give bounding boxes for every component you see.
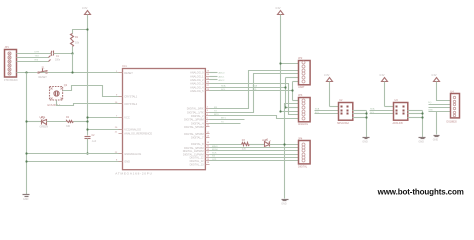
LED LED2 status <box>262 139 271 147</box>
resistor R2 330 <box>66 116 74 128</box>
resistor R1 10k reset pullup <box>71 34 80 47</box>
node junction SDA <box>284 86 286 88</box>
pin 1 RESET <box>116 71 133 75</box>
node junction SDA/JP3 <box>284 106 286 108</box>
wire ANALOG_1 stub <box>210 75 226 78</box>
svg-text:SDA: SDA <box>253 84 258 87</box>
wire U4 GND down <box>436 112 438 135</box>
pin 27 ANALOG_4 <box>190 85 210 89</box>
svg-text:JP2: JP2 <box>298 57 303 60</box>
ground symbol GND U4 <box>433 136 440 142</box>
svg-text:ANALOG_3: ANALOG_3 <box>190 82 204 86</box>
svg-text:Q2: Q2 <box>64 84 68 87</box>
svg-text:ANALOG_1: ANALOG_1 <box>190 74 204 78</box>
svg-text:DIGITAL_2: DIGITAL_2 <box>191 114 204 118</box>
wire LED1 to R2 <box>47 121 67 123</box>
svg-text:GND/ANALOG: GND/ANALOG <box>124 152 141 156</box>
wire 3.3V vertical rail <box>87 15 89 136</box>
svg-text:3.3V: 3.3V <box>275 6 281 10</box>
svg-text:DIGITAL_3/PWM: DIGITAL_3/PWM <box>184 118 203 122</box>
node junction VCC pin20 <box>86 128 88 130</box>
pin 28 ANALOG_5 <box>190 89 210 93</box>
svg-text:DS18B20: DS18B20 <box>447 120 458 123</box>
node junction GND rail 1 <box>25 152 27 154</box>
wire DIGITAL_12 to JP4 <box>210 157 299 159</box>
node junction 3.3V/analog <box>279 110 281 112</box>
svg-text:UART: UART <box>298 86 305 89</box>
supply +3.3V P1 <box>82 6 91 14</box>
wire reset net vertical <box>72 54 74 73</box>
svg-text:3.3V: 3.3V <box>379 73 385 77</box>
svg-text:LED1: LED1 <box>40 116 47 119</box>
svg-text:DIGITAL_1/TX: DIGITAL_1/TX <box>187 110 204 114</box>
wire VCC to IC pin 7 <box>88 117 123 119</box>
svg-text:JP4: JP4 <box>298 138 303 141</box>
svg-text:3.3V: 3.3V <box>431 73 437 77</box>
node junction VCC/LED <box>86 120 88 122</box>
svg-text:ANALOG_0: ANALOG_0 <box>190 71 204 75</box>
pin 25 ANALOG_2 <box>190 78 210 82</box>
svg-text:ADC0: ADC0 <box>219 72 226 75</box>
svg-text:www.bot-thoughts.com: www.bot-thoughts.com <box>377 187 464 196</box>
pin 14 DIGITAL_8 <box>191 142 210 146</box>
svg-text:MISO: MISO <box>212 146 218 148</box>
svg-text:RESET: RESET <box>124 71 133 75</box>
svg-text:DIGITAL_6/PWM: DIGITAL_6/PWM <box>184 132 203 136</box>
wire SCL net A5 to JP2/JP3 <box>210 82 299 101</box>
crystal Q2 8MHz <box>48 84 68 107</box>
svg-text:LED2: LED2 <box>262 139 269 142</box>
node junction GND/LED1 <box>25 120 27 122</box>
connector U4 DS18B20 <box>447 90 460 123</box>
wire DIGITAL_11 to JP4 <box>210 154 299 156</box>
wire ANALOG_2 stub <box>210 79 226 82</box>
svg-text:DIGITAL_7: DIGITAL_7 <box>191 136 204 140</box>
svg-text:330: 330 <box>66 125 71 128</box>
wire DIGITAL_3 stub <box>210 119 245 121</box>
wire DIGITAL_9 to JP4 <box>210 147 299 149</box>
svg-text:JP1: JP1 <box>5 46 10 49</box>
svg-text:ATMEGA168-20PU: ATMEGA168-20PU <box>115 171 152 175</box>
svg-text:DTR: DTR <box>35 51 40 53</box>
svg-text:MOSI: MOSI <box>212 149 218 151</box>
svg-text:ANALOG_2: ANALOG_2 <box>190 78 204 82</box>
wire DIGITAL_10 to JP4 <box>210 150 299 152</box>
connector JP1 FTDI <box>4 46 18 82</box>
wire VCC to IC pin 20 <box>88 129 123 131</box>
svg-text:CRYSTAL2: CRYSTAL2 <box>124 102 138 106</box>
wire ANALOG_3 to JP3 pin5 <box>210 84 299 115</box>
svg-text:DIGITAL_12: DIGITAL_12 <box>190 159 205 163</box>
pin 12 DIGITAL_6/PWM <box>184 132 210 136</box>
svg-text:RESET: RESET <box>39 76 48 79</box>
wire DIGITAL_8 to R3 <box>210 144 242 146</box>
wire C2 to GND rail <box>87 139 89 154</box>
svg-text:ANALOG_4: ANALOG_4 <box>190 85 204 89</box>
pin 16 DIGITAL_10/PWM <box>183 149 210 153</box>
wire R1 to reset net <box>72 47 74 54</box>
supply +3.3V P3 and module U2 MPL115A2 pressure sensor <box>324 73 333 82</box>
wire GND to JP3 pin2 <box>285 104 299 199</box>
pin 5 DIGITAL_3/PWM <box>184 117 209 121</box>
node junction GND rail left <box>25 71 27 73</box>
node junction SCL <box>291 89 293 91</box>
wire crystal to CRYSTAL2 <box>57 101 123 106</box>
pin 20 VCC/ANALOG <box>115 127 141 131</box>
wire stub 2 to U4 <box>429 107 451 109</box>
svg-text:ANALOG: ANALOG <box>298 123 308 126</box>
wire GND rail to IC pin 8 <box>27 161 123 163</box>
svg-text:GND: GND <box>23 198 29 201</box>
wire 3.3V to U4 pin1 <box>437 82 451 101</box>
svg-text:DIGITAL_8: DIGITAL_8 <box>191 142 204 146</box>
svg-text:GREEN: GREEN <box>40 125 49 128</box>
wire GND to LED1 <box>27 121 42 123</box>
pin 11 DIGITAL_5/PWM <box>184 125 210 129</box>
svg-text:RX: RX <box>214 107 218 109</box>
svg-text:SDA: SDA <box>370 108 375 111</box>
node junction C2/GND <box>86 152 88 154</box>
svg-text:GND: GND <box>419 141 425 144</box>
wire SDA net A4 to JP2/JP3 <box>210 78 299 108</box>
pin 7 VCC <box>116 115 130 119</box>
wire DIGITAL_0/RX riser to UART pin3 <box>210 71 299 109</box>
wire DIGITAL_4 stub <box>210 123 241 125</box>
svg-text:DIGITAL: DIGITAL <box>298 166 308 169</box>
svg-text:DIGITAL_4: DIGITAL_4 <box>191 121 204 125</box>
wire ANALOG_0 stub <box>210 72 226 75</box>
svg-text:FTDI BASIC: FTDI BASIC <box>4 79 18 82</box>
svg-text:SDA: SDA <box>221 84 226 87</box>
svg-text:INT0: INT0 <box>214 114 220 116</box>
connector JP4 DIGITAL <box>298 138 310 169</box>
svg-text:.1uF: .1uF <box>92 141 97 143</box>
wire GND stub to U4 <box>428 109 451 111</box>
pin 23 ANALOG_0 <box>190 71 210 75</box>
wire crystal to CRYSTAL1 <box>63 86 123 97</box>
wire R2 to VCC rail <box>74 121 88 123</box>
svg-text:3.3V: 3.3V <box>82 6 88 10</box>
svg-text:DIGITAL_13: DIGITAL_13 <box>190 162 205 166</box>
wire 3.3V to JP2 UART pin1 <box>281 63 299 65</box>
pin 19 DIGITAL_12 <box>190 159 210 163</box>
pin 22 GND/ANALOG <box>115 152 142 156</box>
pin 17 DIGITAL_11/PWM <box>183 152 210 156</box>
pin 26 ANALOG_3 <box>190 82 210 86</box>
switch S1 RESET <box>38 67 48 79</box>
node junction reset/C1 <box>71 52 73 54</box>
wire DIGITAL_13 to JP4 <box>210 160 299 162</box>
svg-text:VCC: VCC <box>124 116 130 120</box>
pin 6 DIGITAL_4 <box>191 121 209 125</box>
svg-text:GND: GND <box>362 141 368 144</box>
resistor R3 330 <box>242 139 250 150</box>
svg-text:ADXL345: ADXL345 <box>393 122 404 125</box>
svg-text:JP3: JP3 <box>298 94 303 97</box>
pin 21 ANALOG_REFERENCE <box>115 131 153 135</box>
svg-text:RXI: RXI <box>35 60 39 62</box>
svg-text:GND: GND <box>281 202 287 205</box>
svg-text:ADC2: ADC2 <box>219 79 226 82</box>
supply +3.3V P5 <box>431 73 439 82</box>
node junction LED2/GND <box>283 143 285 145</box>
pin 2 DIGITAL_0/RX <box>187 107 210 111</box>
wire 3.3V to R1 <box>73 30 88 34</box>
wire R3 to LED2 <box>250 144 265 146</box>
wire GND rail to IC pin 22 <box>27 153 123 155</box>
pin 10 CRYSTAL2 <box>115 102 138 106</box>
svg-text:SDA: SDA <box>315 108 320 111</box>
wire FTDI pin2 TXO <box>17 56 51 58</box>
connector JP3 ANALOG <box>298 94 310 126</box>
wire 3.3V vertical right <box>280 15 282 112</box>
svg-text:DIGITAL_0/RX: DIGITAL_0/RX <box>187 107 204 111</box>
wire GND vertical left <box>26 73 28 195</box>
pin 4 DIGITAL_2 <box>191 114 209 118</box>
wire DQ stub to U4 <box>428 102 451 104</box>
pin 15 DIGITAL_9/PWM <box>184 146 210 150</box>
pin 3 DIGITAL_1/TX <box>187 110 209 114</box>
capacitor C2 decoupling <box>85 135 97 143</box>
svg-text:TXO: TXO <box>35 55 40 57</box>
pin 19 DIGITAL_13 <box>190 162 210 166</box>
svg-text:GND: GND <box>433 138 439 141</box>
node junction reset rail <box>71 71 73 73</box>
wire FTDI pin3 RXI <box>17 60 51 62</box>
pin 9 CRYSTAL1 <box>116 94 138 98</box>
node junction 3.3V/R1 <box>86 28 88 30</box>
node junction GND rail 2 <box>25 160 27 162</box>
svg-text:GND: GND <box>124 160 130 164</box>
ground symbol GND left <box>23 195 30 201</box>
svg-text:ANALOG_5: ANALOG_5 <box>190 89 204 93</box>
op-amp U1 ATMEGA168 MCU <box>115 64 205 175</box>
LED LED1 power <box>40 116 49 129</box>
svg-text:DIGITAL_5/PWM: DIGITAL_5/PWM <box>184 125 203 129</box>
pin 8 GND <box>116 159 130 163</box>
svg-text:3.3V: 3.3V <box>324 73 330 77</box>
wire LED2 to GND net <box>270 144 299 146</box>
node junction 3.3V/UART <box>279 62 281 64</box>
wire C1 to reset node <box>54 53 73 55</box>
wire DIGITAL_1/TX riser to UART pin4 <box>210 74 299 113</box>
svg-text:OC1: OC1 <box>212 159 217 161</box>
svg-text:CRYSTAL1: CRYSTAL1 <box>124 95 138 99</box>
wire FTDI pin1 DTR <box>17 53 51 55</box>
svg-text:VCC/ANALOG: VCC/ANALOG <box>124 127 141 131</box>
connector JP2 UART <box>298 57 310 89</box>
wire FTDI GND to reset rail <box>17 72 123 74</box>
svg-text:DQ: DQ <box>428 102 432 104</box>
capacitor C1 100n <box>51 51 61 62</box>
svg-text:ADC1: ADC1 <box>219 75 226 78</box>
node junction VCC pin7 <box>86 116 88 118</box>
pin 18 DIGITAL_12 <box>190 156 210 160</box>
svg-text:GND: GND <box>428 109 433 111</box>
pin 13 DIGITAL_7 <box>191 135 210 139</box>
svg-text:ANALOG_REFERENCE: ANALOG_REFERENCE <box>124 132 152 136</box>
svg-text:MPL115A2: MPL115A2 <box>337 122 349 125</box>
wire DIGITAL_2 to JP3 pin6 <box>210 116 299 119</box>
svg-text:IC1: IC1 <box>123 64 128 68</box>
svg-text:INT1: INT1 <box>221 118 227 120</box>
pin 24 ANALOG_1 <box>190 74 210 78</box>
supply +3.3V P4 and module U3 ADXL345 accelerometer <box>379 73 387 82</box>
ground symbol GND right <box>281 200 288 206</box>
wire 3.3V to JP3 analog pin4 <box>281 111 299 113</box>
supply +3.3V P2 <box>275 6 283 14</box>
svg-text:SCK: SCK <box>212 152 217 154</box>
svg-text:100n: 100n <box>55 60 61 62</box>
